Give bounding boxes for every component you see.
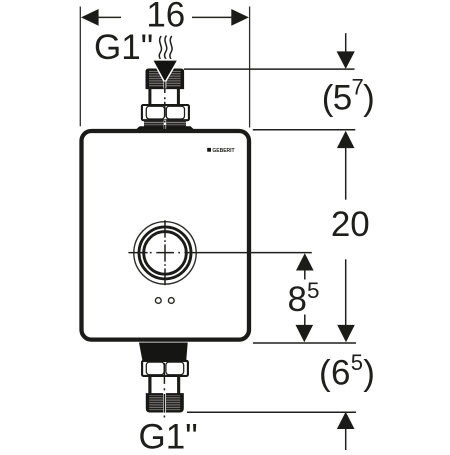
push button: inner ring: [144, 232, 187, 275]
push button: middle ring: [139, 227, 191, 279]
dimension 16: left arrow: [81, 9, 99, 26]
top pipe: serrated washer: [144, 121, 186, 127]
reference line at pipe bottom: [187, 411, 356, 413]
push button: outer thin circle: [134, 222, 196, 284]
dimension 20: upper tail: [345, 146, 347, 200]
sensor window right: [168, 298, 174, 304]
svg-text:20: 20: [331, 205, 370, 244]
bottom pipe: centerline: [163, 363, 166, 418]
top pipe: black mounting base: [134, 126, 197, 132]
svg-text:(65): (65): [319, 350, 375, 393]
bottom pipe: neck: [148, 376, 180, 395]
dimension 16: right dim line segment: [192, 16, 234, 18]
dimension 6.5: up arrow: [337, 412, 355, 429]
GEBERIT logo on body: [207, 148, 234, 154]
dimension 20: down arrow: [337, 325, 355, 342]
push button: vertical centerline: [164, 220, 166, 285]
dimension 8.5: down arrow: [296, 325, 314, 342]
svg-text:G1": G1": [94, 28, 153, 67]
valve body (rounded housing): [82, 131, 250, 340]
dimension 20: up arrow: [337, 131, 355, 148]
dimension 16: right extension line: [249, 7, 251, 128]
reference line from button center to 8.5 dimension: [184, 252, 311, 254]
dimension 6.5: tail: [345, 427, 347, 450]
reference line at body top: [253, 129, 355, 131]
push button: horizontal centerline: [128, 252, 180, 254]
leader arrowhead into pipe thread: [154, 61, 177, 82]
reference line at body bottom: [253, 342, 356, 344]
bottom pipe: hex nut: [142, 361, 188, 376]
top pipe: threaded section G1: [146, 70, 184, 88]
svg-text:(57): (57): [322, 75, 374, 118]
top pipe: neck: [148, 88, 180, 105]
svg-text:G1": G1": [139, 418, 198, 451]
top pipe: centerline: [164, 82, 166, 133]
dimension 16: right arrow: [231, 9, 249, 26]
svg-text:GEBERIT: GEBERIT: [212, 148, 234, 154]
leader arrowhead redrawn over threads: [154, 61, 177, 82]
leader squiggle waves to top pipe: [159, 36, 172, 62]
dimension 16: left extension line: [79, 7, 81, 127]
dimension 8.5: upper tail: [304, 269, 306, 280]
dimension 20: lower tail: [345, 259, 347, 326]
top pipe: hex nut: [142, 105, 189, 120]
dimension 8.5: up arrow: [296, 253, 314, 270]
top pipe: centerline gap below arrow tip: [164, 81, 167, 89]
sensor window left: [155, 298, 161, 304]
dimension 5.7: down arrow: [337, 51, 355, 69]
reference line at pipe top: [184, 68, 355, 70]
dimension 8.5: lower tail: [304, 315, 306, 327]
dimension 16: left dim line segment: [96, 16, 121, 18]
bottom pipe: black connector: [139, 343, 188, 362]
dimension 5.7: tail: [345, 33, 347, 52]
bottom pipe: threaded section G1: [146, 394, 183, 411]
